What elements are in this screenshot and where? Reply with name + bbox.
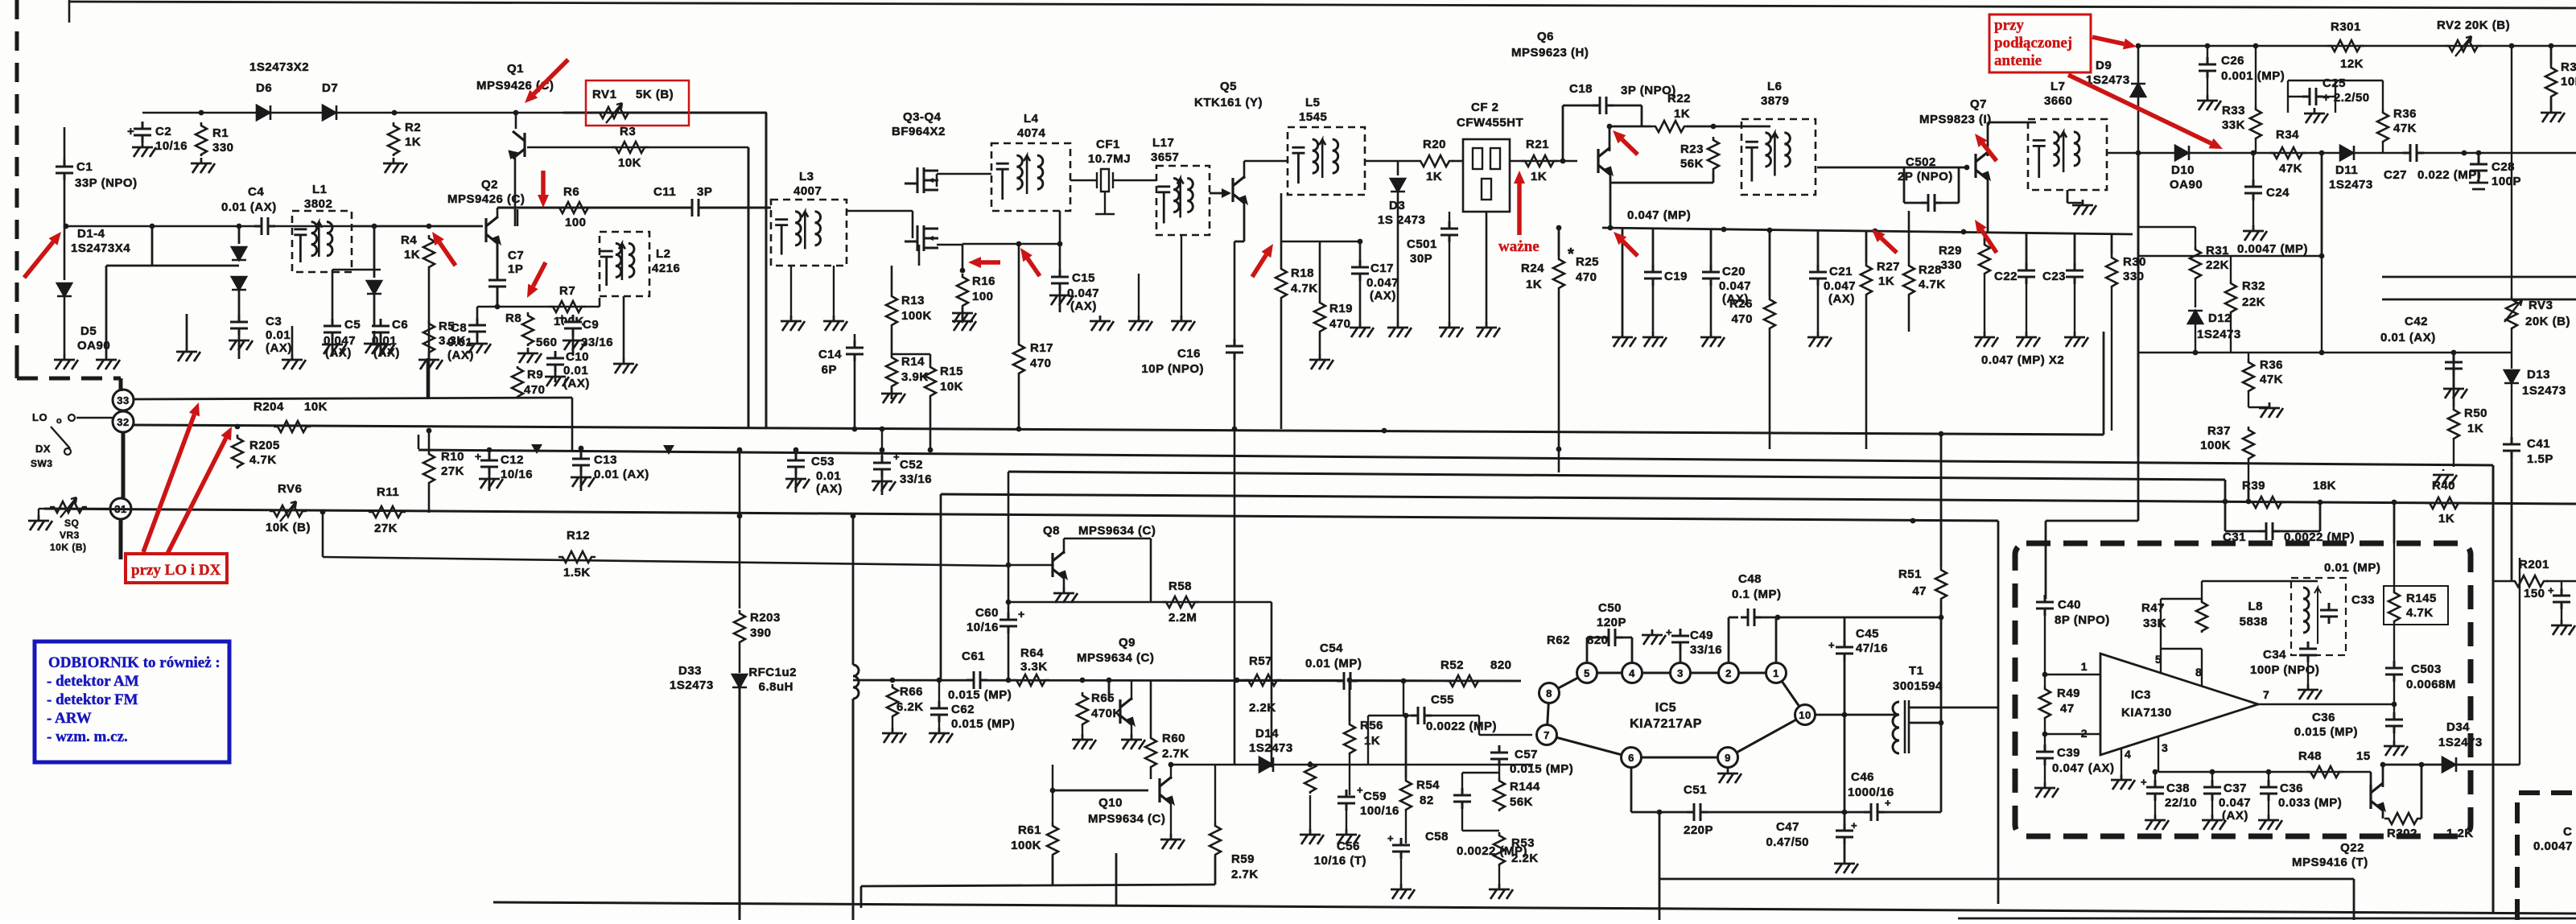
- wire T1 tap upper: [1909, 707, 1998, 709]
- svg-text:10/16: 10/16: [155, 139, 188, 153]
- wire: [1461, 808, 1463, 831]
- svg-text:3.3K: 3.3K: [1020, 660, 1048, 674]
- svg-text:L6: L6: [1767, 80, 1783, 93]
- resistor R1: [196, 122, 207, 156]
- wire: [1309, 795, 1311, 829]
- wire: [332, 269, 381, 271]
- wire: [1059, 211, 1061, 274]
- wire: [2511, 383, 2512, 439]
- resistor R38: [2545, 64, 2557, 98]
- svg-text:10K: 10K: [940, 380, 963, 394]
- bus line y559: [418, 450, 2493, 465]
- wire R3: [527, 146, 748, 149]
- svg-text:0.01: 0.01: [563, 364, 588, 377]
- svg-text:47: 47: [2060, 702, 2075, 716]
- wire: [938, 721, 940, 728]
- resistor R205: [232, 435, 243, 468]
- wire: [1817, 285, 1820, 332]
- wire Q7 collector: [1987, 122, 1989, 156]
- diode D1-2: [232, 247, 246, 260]
- wire to R51 column: [1755, 617, 1941, 619]
- node: [1721, 227, 1727, 233]
- wire: [64, 179, 66, 226]
- svg-text:1P: 1P: [508, 262, 523, 276]
- wire y845: [853, 680, 1521, 681]
- svg-text:0.001 (MP): 0.001 (MP): [2221, 69, 2285, 83]
- svg-text:+: +: [1828, 639, 1835, 651]
- wire y846: [1237, 680, 1521, 681]
- wire C502 loop left: [1903, 167, 1906, 203]
- ground: [282, 354, 306, 369]
- node: [150, 224, 155, 229]
- svg-text:Q6: Q6: [1537, 30, 1554, 43]
- svg-text:R15: R15: [940, 365, 963, 378]
- wire: [1558, 228, 1560, 256]
- red arrow at R18: [1252, 255, 1266, 278]
- wire: [2453, 440, 2454, 467]
- transistor Q22: [2371, 783, 2383, 811]
- capacitor C37: [2203, 789, 2221, 793]
- svg-text:C61: C61: [962, 650, 985, 663]
- transformer L5: [1288, 127, 1365, 195]
- svg-text:Q22: Q22: [2340, 841, 2364, 855]
- resistor R65: [1077, 692, 1088, 726]
- wire: [1214, 765, 1216, 823]
- svg-text:C51: C51: [1684, 783, 1707, 797]
- resistor R28: [1903, 262, 1914, 296]
- transistor Q2: [486, 217, 498, 244]
- wire: [64, 226, 66, 280]
- node: [1657, 810, 1663, 815]
- wire: [2550, 98, 2553, 107]
- svg-text:KIA7130: KIA7130: [2121, 706, 2172, 720]
- svg-text:C21: C21: [1829, 265, 1853, 278]
- vertical wire x2657 lower: [2137, 153, 2140, 456]
- capacitor C39: [2036, 753, 2054, 757]
- svg-text:20K (B): 20K (B): [2525, 315, 2570, 328]
- node: [937, 678, 942, 683]
- capacitor C20: [1702, 274, 1720, 278]
- svg-text:C15: C15: [1072, 271, 1095, 285]
- wire: [1641, 105, 1643, 126]
- resistor R54: [1400, 778, 1412, 811]
- svg-text:0.01 (AX): 0.01 (AX): [594, 468, 649, 481]
- resistor R32: [2225, 280, 2236, 314]
- resistor R201: [2511, 575, 2548, 587]
- IC5 pin 10: [1795, 705, 1816, 725]
- wire: [795, 450, 797, 460]
- wire x2925 down: [2353, 879, 2355, 920]
- red arrow at 0047 node: [1622, 241, 1638, 256]
- ground below C47: [1834, 858, 1858, 873]
- svg-text:R28: R28: [1919, 263, 1942, 277]
- svg-text:32: 32: [117, 416, 129, 428]
- wire: [106, 265, 239, 267]
- wire: [39, 508, 44, 509]
- transistor Q5: [1233, 176, 1245, 204]
- svg-text:L1: L1: [312, 183, 328, 196]
- ground below CF2: [1476, 322, 1500, 337]
- svg-text:OA90: OA90: [2170, 178, 2203, 192]
- wire: [599, 298, 601, 307]
- svg-text:KIA7217AP: KIA7217AP: [1630, 717, 1702, 731]
- node: [1057, 241, 1063, 247]
- svg-text:+: +: [1885, 797, 1891, 809]
- node: [1050, 788, 1056, 794]
- svg-text:R36: R36: [2393, 107, 2417, 121]
- svg-text:+: +: [127, 125, 134, 138]
- transformer L7: [2028, 119, 2107, 190]
- svg-text:Q10: Q10: [1098, 796, 1123, 810]
- wire: [2393, 681, 2395, 716]
- node: [2266, 769, 2272, 775]
- vertical wire x2657: [2137, 46, 2140, 153]
- svg-text:0.0047: 0.0047: [2533, 839, 2573, 853]
- wire: [1775, 617, 1778, 663]
- svg-text:+: +: [1018, 608, 1025, 621]
- wire: [477, 306, 600, 308]
- ground: [1171, 316, 1195, 331]
- wire: [1558, 449, 1560, 472]
- svg-text:150: 150: [2524, 587, 2545, 600]
- potentiometer VR3: [50, 501, 87, 513]
- IC5 pin 4: [1622, 663, 1642, 683]
- svg-text:C502: C502: [1906, 155, 1936, 169]
- node: [1308, 762, 1313, 768]
- wire: [892, 718, 893, 728]
- vertical wire x3121: [2511, 46, 2512, 296]
- wire: [2211, 800, 2213, 815]
- resistor R31: [2190, 246, 2201, 280]
- resistor R20: [1416, 155, 1453, 167]
- wire right edge y344: [2382, 276, 2576, 278]
- node: [1939, 431, 1944, 437]
- wire: [1609, 126, 1651, 128]
- svg-text:(AX): (AX): [325, 346, 352, 360]
- svg-text:330: 330: [1940, 258, 1962, 272]
- svg-text:C22: C22: [1994, 270, 2018, 283]
- capacitor C201: [2553, 597, 2570, 601]
- svg-text:820: 820: [1490, 658, 1512, 672]
- wire: [1425, 715, 1479, 716]
- svg-text:1S2473: 1S2473: [1249, 741, 1293, 755]
- svg-text:330: 330: [212, 141, 234, 155]
- wire: [2288, 80, 2383, 81]
- resistor R10: [423, 451, 435, 485]
- svg-text:R13: R13: [901, 294, 925, 307]
- svg-text:0.015 (MP): 0.015 (MP): [948, 688, 1012, 702]
- resistor R48: [2306, 766, 2343, 778]
- svg-text:1S2473X4: 1S2473X4: [71, 241, 130, 255]
- node: [1608, 225, 1614, 231]
- svg-text:390: 390: [750, 626, 772, 640]
- wire: [1367, 716, 1369, 765]
- svg-text:10: 10: [1799, 709, 1811, 721]
- vertical x2483 down: [1997, 521, 2000, 904]
- node: [2153, 769, 2158, 775]
- svg-text:1S 2473: 1S 2473: [1378, 213, 1425, 227]
- svg-text:5838: 5838: [2240, 615, 2268, 629]
- wire: [1181, 235, 1182, 316]
- svg-text:- detektor AM: - detektor AM: [47, 673, 139, 690]
- bus line y640 through node31 RV6 R11: [44, 509, 1998, 521]
- diode D9: [2131, 84, 2145, 97]
- wire: [1359, 280, 1362, 322]
- svg-text:82: 82: [1420, 794, 1434, 807]
- wire: [2255, 140, 2257, 153]
- capacitor C27: [2412, 144, 2416, 162]
- IC5 pin 6: [1622, 748, 1642, 768]
- capacitor C36: [2385, 721, 2403, 725]
- bus line R12: [323, 557, 1008, 566]
- node: [392, 110, 398, 116]
- wire: [64, 296, 66, 354]
- ground below Q8: [1053, 588, 1078, 603]
- ground: [1612, 332, 1636, 347]
- wire: [854, 361, 856, 429]
- wire 0.047 node: [1602, 228, 2133, 234]
- dashed block boundary: [2015, 543, 2471, 836]
- svg-text:4007: 4007: [793, 184, 822, 198]
- svg-text:4.7K: 4.7K: [1919, 278, 1946, 291]
- wire: [2161, 648, 2202, 650]
- main wire y190: [2138, 152, 2576, 155]
- wire: [1586, 637, 1589, 663]
- IC5 pin 9: [1718, 748, 1738, 768]
- node: [1006, 563, 1012, 568]
- wire pin8 up: [2201, 649, 2203, 686]
- svg-text:10/16: 10/16: [501, 468, 533, 481]
- red arrow at L7 top: [1983, 144, 1997, 162]
- svg-text:D6: D6: [256, 81, 272, 95]
- wire: [2288, 96, 2302, 97]
- node: [2223, 499, 2228, 505]
- node: [1711, 124, 1717, 130]
- wire: [1908, 211, 1910, 262]
- resistor R15: [925, 364, 936, 398]
- wire: [497, 241, 499, 273]
- wire: [2195, 227, 2196, 246]
- wire to top border: [68, 0, 71, 23]
- svg-text:C18: C18: [1569, 82, 1593, 96]
- transistor Q4: [905, 225, 938, 251]
- wire: [488, 450, 491, 460]
- wire: [1281, 241, 1360, 243]
- capacitor C38: [2146, 789, 2164, 793]
- wire y950: [1171, 764, 1533, 766]
- wire: [2546, 580, 2576, 582]
- svg-text:100/16: 100/16: [1360, 804, 1399, 818]
- bottom second line: [1958, 918, 2576, 920]
- node: [1910, 518, 1916, 524]
- svg-text:D12: D12: [2208, 311, 2232, 325]
- wire pin5 up: [2160, 599, 2162, 673]
- wire: [2074, 233, 2076, 270]
- wire R4 down: [428, 269, 431, 398]
- svg-text:R29: R29: [1939, 244, 1962, 258]
- wire: [38, 509, 39, 515]
- svg-text:R58: R58: [1168, 580, 1192, 593]
- node: [320, 509, 326, 515]
- capacitor C23: [2066, 272, 2083, 276]
- svg-text:10K: 10K: [2561, 75, 2576, 89]
- resistor R144: [1494, 778, 1505, 811]
- diode D6: [257, 105, 270, 120]
- wire: [2393, 502, 2396, 543]
- svg-text:C34: C34: [2263, 648, 2286, 662]
- capacitor C2: [134, 130, 151, 134]
- svg-text:33K: 33K: [2143, 617, 2166, 630]
- resistor R29: [1979, 241, 1990, 275]
- svg-text:15: 15: [2356, 749, 2371, 763]
- svg-text:+: +: [1357, 784, 1363, 796]
- svg-text:1545: 1545: [1299, 110, 1327, 124]
- svg-text:L8: L8: [2248, 600, 2263, 613]
- wire C18: [1563, 105, 1642, 107]
- ground below CF1: [1095, 208, 1115, 214]
- capacitor C4: [263, 217, 267, 235]
- ground below C5: [322, 339, 346, 357]
- svg-text:L2: L2: [656, 247, 671, 261]
- capacitor C62: [930, 710, 948, 714]
- wire C18 loop left: [1562, 105, 1564, 161]
- svg-text:100K: 100K: [1011, 839, 1041, 852]
- wire: [1878, 811, 1941, 814]
- IC5 pin 7: [1537, 725, 1557, 745]
- svg-text:RV2 20K (B): RV2 20K (B): [2437, 19, 2510, 32]
- ground below D5: [54, 354, 78, 369]
- signal wire after L1: [352, 225, 483, 228]
- svg-text:C11: C11: [653, 185, 676, 199]
- node: [928, 448, 934, 453]
- wire: [186, 314, 188, 346]
- wire: [1631, 637, 1634, 663]
- svg-text:D9: D9: [2096, 59, 2112, 72]
- wire: [2511, 457, 2513, 581]
- red annotation box LO DX: [126, 554, 227, 583]
- svg-text:R62: R62: [1547, 633, 1570, 647]
- resistor R49: [2039, 686, 2050, 720]
- capacitor C31: [2268, 522, 2272, 540]
- ground below C21: [1807, 332, 1832, 347]
- svg-text:LO: LO: [32, 411, 47, 423]
- svg-text:C37: C37: [2224, 782, 2247, 795]
- thick wire below node 31: [119, 519, 123, 559]
- node: [1873, 229, 1878, 234]
- svg-text:L7: L7: [2050, 80, 2066, 93]
- svg-text:47/16: 47/16: [1856, 641, 1888, 655]
- diode D7: [323, 105, 336, 120]
- svg-text:0.47/50: 0.47/50: [1766, 835, 1809, 849]
- svg-text:3657: 3657: [1151, 151, 1179, 164]
- resistor R6: [555, 202, 592, 213]
- svg-text:100: 100: [972, 290, 994, 303]
- svg-text:RFC1u2: RFC1u2: [748, 666, 797, 679]
- wire: [2154, 800, 2156, 815]
- capacitor C45: [1836, 649, 1853, 653]
- resistor R301: [2327, 40, 2364, 52]
- node: [1556, 447, 1562, 452]
- wire x1060: [852, 516, 855, 665]
- svg-text:C38: C38: [2166, 782, 2190, 795]
- capacitor C12: [480, 462, 498, 466]
- wire: [1052, 856, 1054, 885]
- capacitor C28: [2470, 166, 2487, 170]
- wire: [1214, 856, 1217, 885]
- svg-text:0.015 (MP): 0.015 (MP): [951, 717, 1015, 731]
- wire: [1210, 192, 1222, 195]
- ground below C2: [132, 142, 156, 157]
- svg-text:1K: 1K: [405, 135, 421, 149]
- ground below pin9: [1717, 768, 1741, 783]
- wire: [1622, 229, 1624, 332]
- svg-text:+: +: [2548, 584, 2554, 596]
- capacitor C3: [230, 324, 248, 328]
- wire: [1365, 160, 1416, 163]
- node: [1401, 679, 1407, 684]
- wire step down: [860, 886, 863, 908]
- svg-text:D14: D14: [1255, 727, 1279, 740]
- svg-text:C48: C48: [1738, 572, 1762, 586]
- svg-text:+: +: [1851, 819, 1857, 831]
- transistor Q6: [1598, 147, 1610, 175]
- svg-text:R34: R34: [2276, 128, 2299, 142]
- ground: [781, 316, 805, 331]
- svg-text:R20: R20: [1423, 138, 1446, 151]
- capacitor C59: [1337, 798, 1355, 802]
- svg-text:0.1 (MP): 0.1 (MP): [1732, 588, 1782, 601]
- wire: [2046, 520, 2138, 522]
- svg-text:MPS9823 (I): MPS9823 (I): [1919, 113, 1992, 126]
- resistor R52: [1445, 675, 1482, 687]
- svg-text:podłączonej: podłączonej: [1994, 35, 2072, 52]
- svg-text:Q1: Q1: [507, 62, 524, 76]
- wire: [2393, 623, 2395, 665]
- wire pin3 down: [2158, 736, 2159, 772]
- svg-text:RV1: RV1: [592, 88, 616, 101]
- resistor R37: [2243, 427, 2254, 460]
- op-amp IC3: [2100, 654, 2258, 755]
- svg-text:KTK161 (Y): KTK161 (Y): [1194, 96, 1263, 109]
- node: [2253, 43, 2259, 49]
- wire: [891, 327, 893, 354]
- svg-text:(AX): (AX): [816, 482, 843, 496]
- wire Q8 collector: [1063, 538, 1065, 554]
- ground: [823, 316, 847, 331]
- IC5 pin 2: [1719, 663, 1739, 683]
- wire: [1397, 192, 1399, 322]
- wire: [1938, 202, 1959, 204]
- bus y614 left: [941, 494, 1931, 500]
- wire: [2268, 772, 2269, 787]
- dashed block bottom right: [2517, 793, 2576, 920]
- svg-text:R302: R302: [2387, 827, 2417, 840]
- svg-text:R66: R66: [900, 685, 923, 699]
- IC5 pin 5: [1577, 663, 1597, 683]
- svg-text:D11: D11: [2335, 163, 2358, 177]
- svg-text:IC3: IC3: [2131, 688, 2151, 702]
- wire: [2421, 765, 2423, 819]
- wire: [1844, 617, 1846, 644]
- vertical x1169: [940, 494, 942, 680]
- potentiometer RV6: [270, 505, 307, 517]
- svg-text:C4: C4: [248, 185, 264, 199]
- svg-text:8: 8: [1546, 687, 1552, 699]
- resistor R302: [2384, 813, 2421, 824]
- ground below C34: [2298, 684, 2322, 699]
- resistor R203: [734, 610, 745, 644]
- wire: [2224, 501, 2227, 531]
